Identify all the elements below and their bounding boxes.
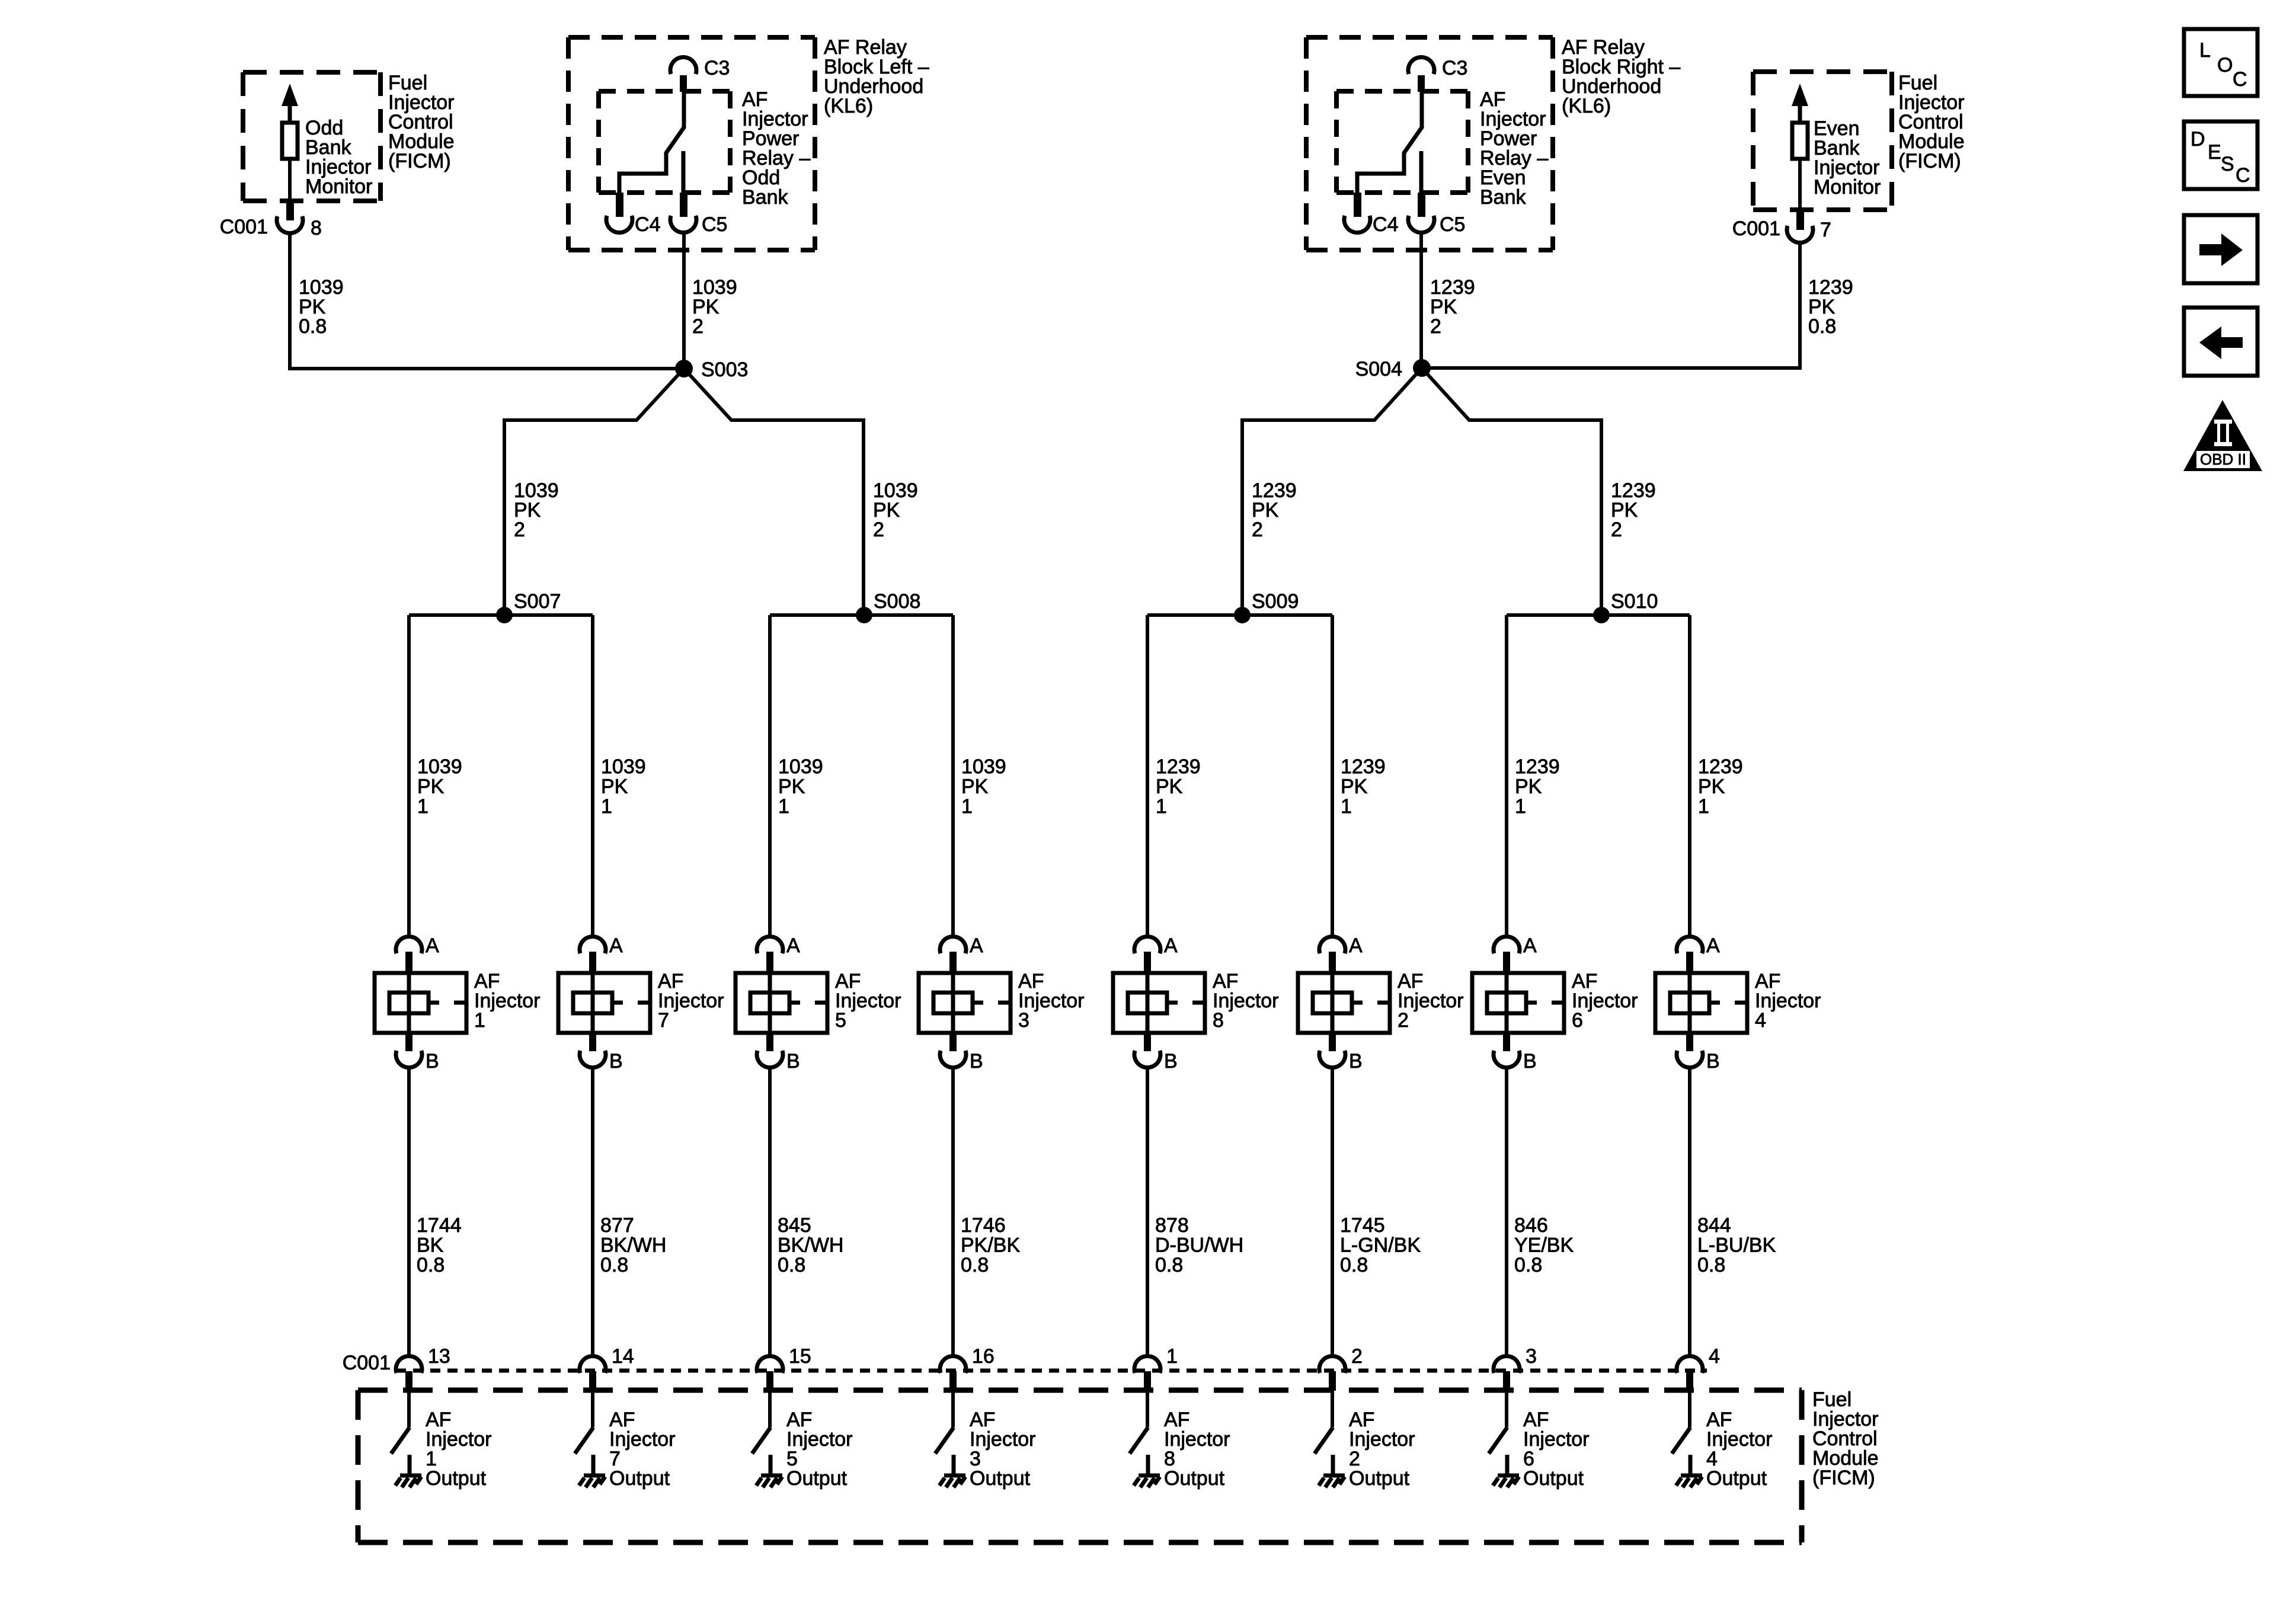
svg-text:0.8: 0.8 xyxy=(1697,1254,1725,1276)
icon LOC button xyxy=(2184,29,2257,96)
connector C3 (left relay) xyxy=(670,57,696,74)
svg-text:0.8: 0.8 xyxy=(417,1254,445,1276)
svg-text:C001: C001 xyxy=(1732,217,1780,240)
svg-text:2: 2 xyxy=(514,518,525,541)
svg-text:5: 5 xyxy=(835,1009,846,1032)
svg-text:S009: S009 xyxy=(1252,590,1299,613)
svg-text:Bank: Bank xyxy=(742,186,788,209)
svg-text:C: C xyxy=(2236,164,2250,187)
ground (AF Injector 5 Output) xyxy=(761,1474,782,1478)
svg-text:877: 877 xyxy=(600,1214,634,1237)
svg-text:C4: C4 xyxy=(1373,213,1398,236)
connector C001 pin 8 xyxy=(286,200,294,220)
svg-text:A: A xyxy=(609,934,623,957)
svg-text:845: 845 xyxy=(778,1214,811,1237)
relay K: AF Injector Power Relay - Odd Bank inner dashed box xyxy=(599,91,730,193)
relay stationary contact (right) xyxy=(1419,151,1424,193)
svg-text:3: 3 xyxy=(1018,1009,1029,1032)
wire driver to ground (injector 5 output) xyxy=(769,1455,773,1474)
wire 1039 PK 2 : relay C5 left down to S003 xyxy=(682,232,686,369)
wire 1239 PK 0.8 : C001-7 down and over to S004 xyxy=(1422,243,1800,368)
wire driver to ground (injector 8 output) xyxy=(1146,1455,1150,1474)
svg-text:7: 7 xyxy=(1820,219,1831,241)
svg-text:S: S xyxy=(2221,153,2234,175)
switch: AF Injector 4 Output driver xyxy=(1688,1391,1691,1427)
splice S003 xyxy=(675,360,693,377)
svg-text:1239: 1239 xyxy=(1698,756,1743,778)
svg-text:B: B xyxy=(786,1050,800,1073)
svg-text:B: B xyxy=(1706,1050,1720,1073)
connector C3 (right relay) xyxy=(1408,57,1434,74)
connector pin B of AF Injector 4 xyxy=(1686,1033,1693,1051)
arrow up (Odd Bank Injector Monitor internal source) xyxy=(282,84,298,106)
connector C001 pin 13 xyxy=(396,1356,422,1373)
svg-text:C: C xyxy=(2233,68,2247,91)
switch: AF Injector 2 Output driver xyxy=(1331,1391,1334,1427)
connector pin A of AF Injector 6 xyxy=(1494,936,1520,953)
svg-text:A: A xyxy=(1523,934,1537,957)
wire splice bar S009 xyxy=(1147,613,1332,617)
svg-text:8: 8 xyxy=(1213,1009,1224,1032)
relay K: AF Injector Power Relay - Even Bank inner dashed box xyxy=(1336,91,1468,193)
svg-text:A: A xyxy=(1164,934,1178,957)
svg-text:A: A xyxy=(786,934,800,957)
ground (AF Injector 8 Output) xyxy=(1139,1474,1160,1478)
svg-text:13: 13 xyxy=(428,1345,450,1368)
svg-text:1: 1 xyxy=(1515,795,1526,818)
AF Relay Block Right - Underhood (KL6) dashed box xyxy=(1306,37,1553,250)
wire 1039 PK 1 : splice down to AF Injector 1 pin A xyxy=(407,615,411,937)
splice S007 xyxy=(496,607,513,623)
svg-text:(FICM): (FICM) xyxy=(1898,150,1961,172)
splice S004 xyxy=(1413,359,1431,377)
svg-text:BK/WH: BK/WH xyxy=(600,1234,666,1257)
svg-text:(FICM): (FICM) xyxy=(1812,1467,1875,1489)
svg-text:0.8: 0.8 xyxy=(1514,1254,1542,1276)
wire driver to ground (injector 7 output) xyxy=(591,1455,596,1474)
svg-text:Output: Output xyxy=(1706,1467,1767,1490)
svg-text:BK: BK xyxy=(417,1234,444,1257)
svg-text:(KL6): (KL6) xyxy=(1562,95,1611,117)
svg-text:C001: C001 xyxy=(220,216,268,238)
connector C001 pin 7 xyxy=(1796,209,1804,230)
svg-text:878: 878 xyxy=(1155,1214,1189,1237)
svg-text:4: 4 xyxy=(1709,1345,1720,1368)
svg-text:Output: Output xyxy=(786,1467,848,1490)
svg-text:C4: C4 xyxy=(635,213,660,236)
connector C001 pin 16 xyxy=(940,1356,966,1373)
wire S003 branch right to S008 xyxy=(684,369,864,615)
switch: AF Injector 5 Output driver xyxy=(768,1391,772,1427)
wire resistor to box edge xyxy=(1798,159,1802,209)
connector pin A of AF Injector 2 xyxy=(1319,936,1345,953)
connector pin A of AF Injector 4 xyxy=(1677,936,1703,953)
svg-text:846: 846 xyxy=(1514,1214,1548,1237)
svg-text:0.8: 0.8 xyxy=(1155,1254,1183,1276)
svg-text:Output: Output xyxy=(1523,1467,1584,1490)
svg-text:1: 1 xyxy=(778,795,789,818)
svg-text:1039: 1039 xyxy=(601,756,646,778)
wire driver to ground (injector 6 output) xyxy=(1505,1455,1510,1474)
svg-text:0.8: 0.8 xyxy=(778,1254,805,1276)
switch: AF Injector 6 Output driver xyxy=(1505,1391,1508,1427)
svg-text:Output: Output xyxy=(970,1467,1031,1490)
svg-text:(FICM): (FICM) xyxy=(388,150,451,172)
svg-text:Output: Output xyxy=(1349,1467,1410,1490)
wire driver to ground (injector 2 output) xyxy=(1331,1455,1335,1474)
wire 1239 PK 1 : splice down to AF Injector 6 pin A xyxy=(1505,615,1508,937)
connector pin B of AF Injector 3 xyxy=(949,1033,957,1051)
icon DESC button xyxy=(2184,121,2257,189)
splice S010 xyxy=(1593,607,1610,623)
svg-text:B: B xyxy=(970,1050,983,1073)
connector pin B of AF Injector 2 xyxy=(1329,1033,1336,1051)
connector C5 (left relay) xyxy=(680,193,687,217)
module Fuel Injector Control Module (FICM) bottom dashed box xyxy=(358,1390,1802,1542)
svg-text:1: 1 xyxy=(417,795,428,818)
svg-text:L-GN/BK: L-GN/BK xyxy=(1340,1234,1421,1257)
resistor: Odd Bank Injector Monitor xyxy=(282,123,298,159)
injector solenoid: AF Injector 8 xyxy=(1113,973,1205,1033)
wire S004 branch right to S010 xyxy=(1422,368,1601,615)
ground (AF Injector 4 Output) xyxy=(1681,1474,1702,1478)
switch: AF Injector 8 Output driver xyxy=(1146,1391,1149,1427)
svg-text:2: 2 xyxy=(1611,518,1622,541)
svg-text:S008: S008 xyxy=(874,590,920,613)
svg-text:C3: C3 xyxy=(704,57,730,79)
svg-text:2: 2 xyxy=(1252,518,1263,541)
connector C001 pin 15 xyxy=(757,1356,783,1373)
svg-text:1744: 1744 xyxy=(417,1214,462,1237)
svg-text:4: 4 xyxy=(1755,1009,1766,1032)
svg-text:Bank: Bank xyxy=(1480,186,1526,209)
svg-text:E: E xyxy=(2208,141,2221,164)
svg-text:D-BU/WH: D-BU/WH xyxy=(1155,1234,1243,1257)
connector pin A of AF Injector 7 xyxy=(580,936,606,953)
injector solenoid: AF Injector 3 xyxy=(919,973,1011,1033)
module FICM right (Even Bank Injector Monitor) dashed box xyxy=(1753,72,1892,210)
svg-text:A: A xyxy=(426,934,439,957)
svg-text:1: 1 xyxy=(961,795,973,818)
wire 1039 PK 1 : splice down to AF Injector 5 pin A xyxy=(768,615,772,937)
wire 1039 PK 0.8 : C001-8 down and over to S003 xyxy=(290,233,684,369)
svg-text:Monitor: Monitor xyxy=(1814,176,1881,199)
connector pin B of AF Injector 7 xyxy=(589,1033,596,1051)
ground (AF Injector 3 Output) xyxy=(944,1474,965,1478)
injector solenoid: AF Injector 4 xyxy=(1655,973,1747,1033)
connector C5 (right relay) xyxy=(1418,193,1425,217)
svg-text:B: B xyxy=(609,1050,623,1073)
connector C4 (left relay) xyxy=(616,193,623,217)
wire 1745 L-GN/BK 0.8 : AF Injector 2 pin B to C001-2 xyxy=(1331,1067,1334,1356)
connector pin A of AF Injector 1 xyxy=(396,936,422,953)
connector pin B of AF Injector 6 xyxy=(1503,1033,1510,1051)
svg-text:1: 1 xyxy=(1156,795,1167,818)
svg-text:1746: 1746 xyxy=(961,1214,1006,1237)
svg-text:C001: C001 xyxy=(343,1352,391,1374)
wire 878 D-BU/WH 0.8 : AF Injector 8 pin B to C001-1 xyxy=(1146,1067,1149,1356)
injector solenoid: AF Injector 1 xyxy=(375,973,466,1033)
svg-text:BK/WH: BK/WH xyxy=(778,1234,843,1257)
connector C001 pin 3 xyxy=(1494,1356,1520,1373)
svg-text:1: 1 xyxy=(1341,795,1352,818)
injector solenoid: AF Injector 7 xyxy=(558,973,650,1033)
svg-text:1: 1 xyxy=(601,795,612,818)
connector pin B of AF Injector 5 xyxy=(766,1033,773,1051)
connector C001 pin 14 xyxy=(580,1356,606,1373)
svg-text:1: 1 xyxy=(1166,1345,1178,1368)
svg-text:PK: PK xyxy=(601,776,628,798)
svg-text:(KL6): (KL6) xyxy=(824,95,873,117)
connector C001 dotted separation line xyxy=(396,1369,1707,1373)
arrow up (Even Bank Injector Monitor internal source) xyxy=(1792,84,1808,106)
svg-text:A: A xyxy=(1706,934,1720,957)
svg-text:S010: S010 xyxy=(1611,590,1658,613)
svg-text:A: A xyxy=(1349,934,1363,957)
svg-text:0.8: 0.8 xyxy=(961,1254,989,1276)
wire 844 L-BU/BK 0.8 : AF Injector 4 pin B to C001-4 xyxy=(1688,1067,1691,1356)
svg-text:PK: PK xyxy=(417,776,445,798)
wire 1239 PK 2 : relay C5 right down to S004 xyxy=(1419,232,1423,368)
connector C001 pin 2 xyxy=(1319,1356,1345,1373)
svg-text:1039: 1039 xyxy=(417,756,462,778)
connector pin B of AF Injector 8 xyxy=(1144,1033,1151,1051)
wire 1039 PK 1 : splice down to AF Injector 3 pin A xyxy=(951,615,955,937)
splice S009 xyxy=(1234,607,1251,623)
svg-text:C5: C5 xyxy=(1440,213,1465,236)
svg-text:14: 14 xyxy=(612,1345,634,1368)
relay switch blade (right) xyxy=(1357,92,1422,193)
svg-text:C5: C5 xyxy=(702,213,727,236)
svg-text:D: D xyxy=(2191,128,2205,151)
svg-text:1239: 1239 xyxy=(1515,756,1560,778)
svg-text:7: 7 xyxy=(658,1009,669,1032)
svg-text:S004: S004 xyxy=(1355,358,1402,380)
svg-text:S003: S003 xyxy=(701,359,748,381)
svg-text:0.8: 0.8 xyxy=(600,1254,628,1276)
relay switch blade (left) xyxy=(619,92,684,193)
icon OBD II symbol xyxy=(2183,400,2262,471)
connector C001 pin 4 xyxy=(1677,1356,1703,1373)
svg-text:O: O xyxy=(2217,54,2233,76)
ground (AF Injector 7 Output) xyxy=(584,1474,605,1478)
wire splice bar S010 xyxy=(1507,613,1690,617)
connector pin A of AF Injector 3 xyxy=(940,936,966,953)
svg-text:B: B xyxy=(1349,1050,1363,1073)
relay stationary contact (left) xyxy=(682,151,686,193)
wire splice bar S008 xyxy=(770,613,953,617)
wire 845 BK/WH 0.8 : AF Injector 5 pin B to C001-15 xyxy=(768,1067,772,1356)
switch: AF Injector 3 Output driver xyxy=(951,1391,955,1427)
injector solenoid: AF Injector 5 xyxy=(736,973,827,1033)
wire resistor to box edge xyxy=(288,159,292,200)
svg-text:6: 6 xyxy=(1572,1009,1583,1032)
ground (AF Injector 1 Output) xyxy=(400,1474,421,1478)
svg-text:Monitor: Monitor xyxy=(305,175,372,198)
wire 1746 PK/BK 0.8 : AF Injector 3 pin B to C001-16 xyxy=(951,1067,955,1356)
wire 1744 BK 0.8 : AF Injector 1 pin B to C001-13 xyxy=(407,1067,411,1356)
svg-text:L-BU/BK: L-BU/BK xyxy=(1697,1234,1776,1257)
splice S008 xyxy=(856,607,872,623)
switch: AF Injector 7 Output driver xyxy=(591,1391,594,1427)
svg-text:PK: PK xyxy=(1515,776,1542,798)
ground (AF Injector 2 Output) xyxy=(1323,1474,1345,1478)
svg-text:C3: C3 xyxy=(1442,57,1467,79)
svg-text:PK: PK xyxy=(961,776,989,798)
svg-text:L: L xyxy=(2199,39,2211,62)
switch: AF Injector 1 Output driver xyxy=(407,1391,411,1427)
icon back arrow button xyxy=(2184,308,2257,376)
wire driver to ground (injector 3 output) xyxy=(952,1455,956,1474)
svg-text:1745: 1745 xyxy=(1340,1214,1385,1237)
svg-text:2: 2 xyxy=(1398,1009,1409,1032)
svg-text:2: 2 xyxy=(692,315,703,338)
wire S003 branch left to S007 xyxy=(504,369,684,615)
wire 1239 PK 1 : splice down to AF Injector 8 pin A xyxy=(1146,615,1149,937)
injector solenoid: AF Injector 2 xyxy=(1298,973,1390,1033)
svg-text:OBD II: OBD II xyxy=(2200,450,2246,468)
svg-text:YE/BK: YE/BK xyxy=(1514,1234,1574,1257)
wire driver to ground (injector 1 output) xyxy=(408,1455,412,1474)
svg-text:Output: Output xyxy=(1164,1467,1225,1490)
svg-text:0.8: 0.8 xyxy=(1340,1254,1368,1276)
svg-text:1039: 1039 xyxy=(961,756,1006,778)
svg-text:PK/BK: PK/BK xyxy=(961,1234,1020,1257)
svg-text:PK: PK xyxy=(1341,776,1368,798)
svg-text:0.8: 0.8 xyxy=(299,315,327,338)
svg-text:1239: 1239 xyxy=(1341,756,1386,778)
resistor: Even Bank Injector Monitor xyxy=(1792,123,1808,159)
svg-text:PK: PK xyxy=(1156,776,1183,798)
icon forward arrow button xyxy=(2184,215,2257,283)
wire 1239 PK 1 : splice down to AF Injector 2 pin A xyxy=(1331,615,1334,937)
svg-text:1239: 1239 xyxy=(1156,756,1201,778)
svg-text:B: B xyxy=(1523,1050,1537,1073)
svg-text:S007: S007 xyxy=(514,590,561,613)
svg-text:15: 15 xyxy=(789,1345,811,1368)
svg-text:PK: PK xyxy=(778,776,805,798)
svg-text:Output: Output xyxy=(609,1467,670,1490)
wire splice bar S007 xyxy=(409,613,593,617)
svg-text:3: 3 xyxy=(1526,1345,1537,1368)
svg-text:2: 2 xyxy=(873,518,884,541)
injector solenoid: AF Injector 6 xyxy=(1472,973,1564,1033)
svg-text:1: 1 xyxy=(1698,795,1709,818)
connector pin A of AF Injector 8 xyxy=(1134,936,1160,953)
svg-text:844: 844 xyxy=(1697,1214,1731,1237)
svg-text:2: 2 xyxy=(1351,1345,1363,1368)
svg-text:PK: PK xyxy=(1698,776,1725,798)
svg-text:2: 2 xyxy=(1430,315,1441,338)
svg-text:1039: 1039 xyxy=(778,756,823,778)
svg-text:B: B xyxy=(1164,1050,1178,1073)
wire 877 BK/WH 0.8 : AF Injector 7 pin B to C001-14 xyxy=(591,1067,594,1356)
wire driver to ground (injector 4 output) xyxy=(1689,1455,1693,1474)
svg-text:8: 8 xyxy=(311,217,322,239)
module FICM left (Odd Bank Injector Monitor) dashed box xyxy=(243,72,380,201)
svg-text:0.8: 0.8 xyxy=(1808,315,1836,338)
wire S004 branch left to S009 xyxy=(1242,368,1422,615)
connector C001 pin 1 xyxy=(1134,1356,1160,1373)
svg-text:B: B xyxy=(426,1050,439,1073)
connector pin B of AF Injector 1 xyxy=(405,1033,412,1051)
svg-text:16: 16 xyxy=(972,1345,994,1368)
connector pin A of AF Injector 5 xyxy=(757,936,783,953)
AF Relay Block Left - Underhood (KL6) dashed box xyxy=(568,37,815,250)
wire 846 YE/BK 0.8 : AF Injector 6 pin B to C001-3 xyxy=(1505,1067,1508,1356)
ground (AF Injector 6 Output) xyxy=(1498,1474,1519,1478)
svg-text:1: 1 xyxy=(474,1009,485,1032)
svg-text:A: A xyxy=(970,934,983,957)
wire 1039 PK 1 : splice down to AF Injector 7 pin A xyxy=(591,615,594,937)
connector C4 (right relay) xyxy=(1354,193,1361,217)
svg-text:Output: Output xyxy=(426,1467,487,1490)
wire 1239 PK 1 : splice down to AF Injector 4 pin A xyxy=(1688,615,1691,937)
